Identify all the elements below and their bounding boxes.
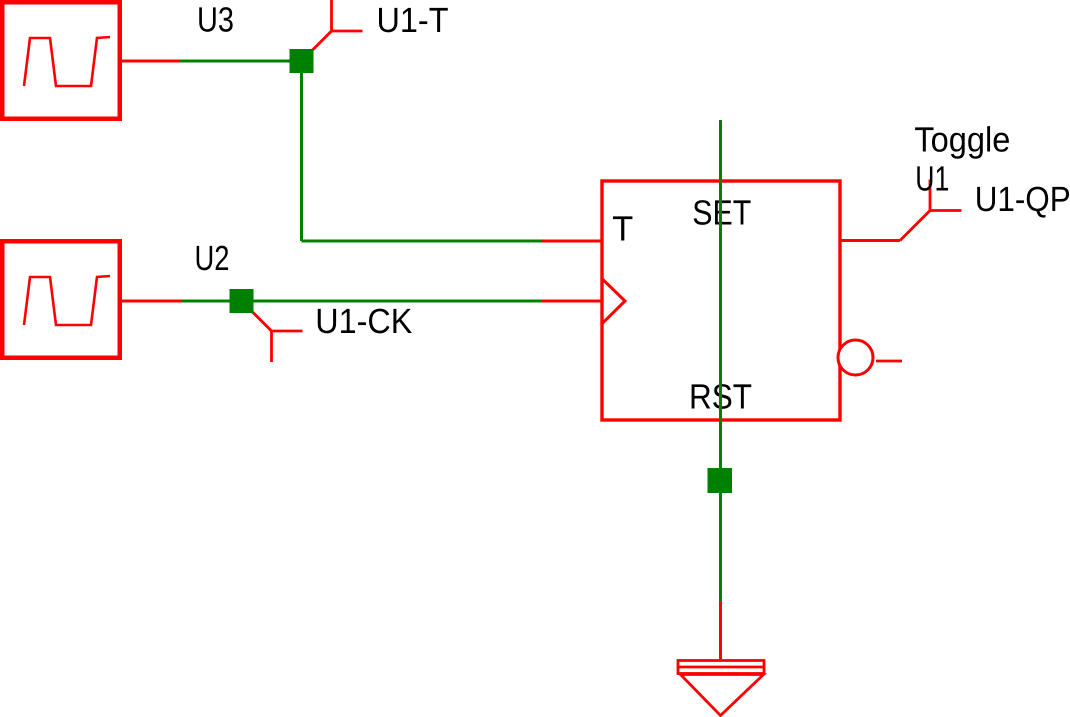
pin stub ground connection: [719, 602, 722, 661]
svg-text:U1-QP: U1-QP: [975, 180, 1070, 219]
svg-text:U3: U3: [197, 0, 234, 39]
svg-text:U2: U2: [195, 239, 230, 278]
svg-text:T: T: [612, 210, 633, 249]
junction node U1-T net: [290, 49, 314, 73]
svg-text:Toggle: Toggle: [914, 121, 1010, 160]
pin stub U1 Q output: [840, 239, 900, 242]
pin stub U1 clock input: [542, 300, 602, 303]
terminal U1-T: [302, 0, 363, 61]
ground: [678, 661, 764, 716]
terminal U1-CK: [242, 301, 303, 362]
terminal U1-QP: [900, 180, 962, 241]
flip-flop U1 body: [602, 181, 840, 420]
pin stub U3 output: [120, 60, 180, 63]
pulse generator U3: [2, 2, 120, 119]
junction node U1-CK net: [230, 289, 254, 313]
wire net U1-T horizontal to T pin: [302, 240, 542, 243]
pin stub U1 T input: [541, 240, 602, 243]
pin stub U1 QN output: [876, 360, 902, 363]
svg-text:U1-CK: U1-CK: [315, 302, 412, 341]
wire net SET/RST vertical: [719, 120, 722, 602]
junction node RST net: [708, 468, 733, 493]
svg-text:U1-T: U1-T: [377, 1, 449, 40]
pin stub U2 output: [120, 300, 181, 303]
pulse generator U2: [2, 241, 120, 358]
wire net U1-T horizontal from U3: [180, 60, 302, 63]
svg-text:U1: U1: [915, 160, 949, 199]
wire net U1-T vertical drop: [300, 61, 303, 241]
clock chevron pin CK: [602, 279, 625, 324]
inverting bubble QN output: [838, 340, 873, 375]
wire net U1-CK: [181, 300, 542, 303]
